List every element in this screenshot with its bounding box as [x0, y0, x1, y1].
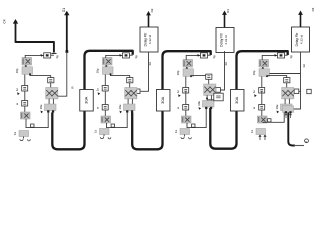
svg-text:10p: 10p [96, 68, 100, 73]
svg-text:D4: D4 [311, 7, 315, 11]
svg-text:3d: 3d [148, 62, 152, 66]
svg-text:4.32 td: 4.32 td [300, 35, 304, 45]
svg-text:1n: 1n [252, 90, 256, 94]
svg-text:4.32 td: 4.32 td [224, 35, 228, 45]
svg-text:3g: 3g [55, 55, 59, 59]
svg-text:10u: 10u [39, 104, 43, 109]
svg-text:C4: C4 [3, 19, 7, 23]
svg-text:10u: 10u [118, 104, 122, 109]
svg-text:Delay Fltr: Delay Fltr [295, 32, 299, 47]
svg-text:D2: D2 [150, 8, 154, 12]
svg-text:10p: 10p [176, 70, 180, 75]
svg-text:3d: 3d [302, 64, 306, 68]
svg-text:3d: 3d [224, 62, 228, 66]
svg-text:1n: 1n [15, 88, 19, 92]
svg-text:Delay Fltr: Delay Fltr [143, 32, 147, 47]
svg-text:Delay Fltr: Delay Fltr [219, 32, 223, 47]
svg-text:3g: 3g [134, 55, 138, 59]
svg-text:30A: 30A [84, 96, 89, 103]
svg-text:D3: D3 [226, 9, 230, 13]
svg-text:10p: 10p [252, 70, 256, 75]
svg-text:1n: 1n [96, 88, 100, 92]
svg-text:10u: 10u [197, 101, 201, 106]
svg-text:10u: 10u [275, 104, 279, 109]
svg-text:30A: 30A [160, 96, 165, 103]
svg-text:D1: D1 [62, 8, 66, 12]
svg-text:10p: 10p [15, 68, 19, 73]
svg-text:30A: 30A [234, 96, 239, 103]
svg-text:1n: 1n [176, 90, 180, 94]
svg-text:3g: 3g [212, 55, 216, 59]
svg-text:3g: 3g [289, 55, 293, 59]
svg-text:4.32 td: 4.32 td [148, 35, 152, 45]
